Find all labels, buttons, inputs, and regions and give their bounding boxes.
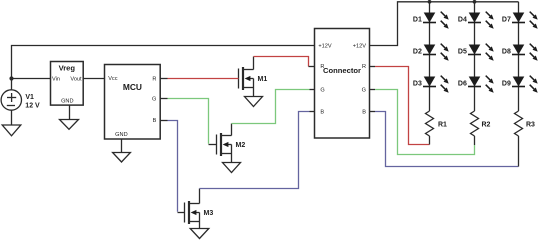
svg-text:B: B	[362, 110, 366, 116]
svg-text:D6: D6	[458, 81, 467, 88]
svg-text:Connector: Connector	[323, 66, 361, 75]
svg-text:R: R	[362, 64, 366, 70]
svg-text:12 V: 12 V	[25, 103, 40, 110]
svg-text:MCU: MCU	[123, 82, 142, 92]
svg-text:R1: R1	[438, 121, 447, 128]
svg-text:D2: D2	[413, 49, 422, 56]
svg-text:G: G	[362, 88, 366, 94]
svg-text:B: B	[153, 118, 157, 124]
svg-text:Vreg: Vreg	[59, 64, 76, 73]
svg-text:V1: V1	[25, 94, 34, 101]
svg-text:G: G	[152, 97, 156, 103]
svg-text:+12V: +12V	[353, 44, 366, 50]
svg-text:GND: GND	[61, 99, 73, 105]
svg-text:Vin: Vin	[52, 77, 60, 83]
svg-text:R3: R3	[526, 121, 535, 128]
svg-text:R2: R2	[482, 121, 491, 128]
svg-text:D5: D5	[458, 49, 467, 56]
svg-text:G: G	[320, 88, 324, 94]
svg-text:D9: D9	[502, 81, 511, 88]
svg-text:M2: M2	[236, 142, 246, 149]
svg-text:M3: M3	[204, 210, 214, 217]
svg-text:D7: D7	[502, 17, 511, 24]
svg-text:Vcc: Vcc	[108, 76, 118, 82]
svg-text:GND: GND	[115, 132, 127, 138]
svg-text:D8: D8	[502, 49, 511, 56]
svg-text:D4: D4	[458, 17, 467, 24]
svg-text:D3: D3	[413, 81, 422, 88]
svg-text:D1: D1	[413, 17, 422, 24]
svg-text:+12V: +12V	[318, 44, 331, 50]
svg-text:R: R	[152, 76, 156, 82]
svg-text:M1: M1	[258, 76, 268, 83]
svg-text:B: B	[320, 110, 324, 116]
svg-text:Vout: Vout	[70, 77, 82, 83]
